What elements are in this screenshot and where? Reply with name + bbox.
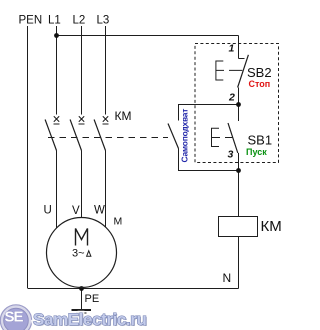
- svg-text:U: U: [44, 205, 52, 217]
- svg-text:КМ: КМ: [115, 109, 132, 123]
- svg-text:Самоподхват: Самоподхват: [179, 109, 189, 163]
- svg-text:2: 2: [228, 92, 235, 104]
- svg-text:Стоп: Стоп: [249, 79, 271, 89]
- svg-text:W: W: [94, 205, 105, 217]
- svg-text:1: 1: [229, 43, 235, 55]
- svg-text:SamElectric.ru: SamElectric.ru: [33, 310, 146, 329]
- svg-text:N: N: [223, 271, 232, 285]
- svg-text:L3: L3: [97, 15, 110, 27]
- svg-text:L2: L2: [73, 15, 86, 27]
- svg-text:M: M: [114, 215, 123, 227]
- svg-text:L1: L1: [48, 15, 61, 27]
- svg-text:КМ: КМ: [261, 218, 282, 235]
- svg-text:V: V: [72, 205, 80, 217]
- svg-text:SE: SE: [5, 309, 24, 326]
- svg-text:PEN: PEN: [19, 15, 43, 27]
- svg-text:Пуск: Пуск: [246, 147, 267, 157]
- svg-text:3: 3: [228, 149, 234, 161]
- svg-text:PE: PE: [85, 293, 100, 305]
- svg-text:SB2: SB2: [247, 65, 272, 80]
- svg-text:SB1: SB1: [248, 133, 273, 148]
- svg-text:3~: 3~: [72, 248, 85, 260]
